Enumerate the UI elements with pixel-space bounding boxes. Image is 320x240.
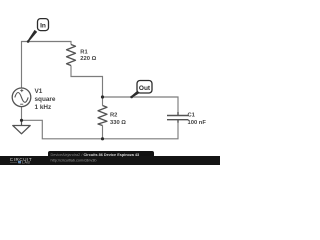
capacitor C1 xyxy=(167,112,189,123)
wire node A to R2 top xyxy=(102,97,104,106)
wire node A to C1 top xyxy=(103,97,179,112)
node junction dot bottom rail xyxy=(101,137,104,140)
flag In: tail xyxy=(28,30,38,42)
svg-text:DeviceAlejandra2 / Circuits 86: DeviceAlejandra2 / Circuits 86 Device Es… xyxy=(51,153,140,157)
svg-text:LAB: LAB xyxy=(22,161,30,165)
svg-text:220 Ω: 220 Ω xyxy=(80,56,96,62)
flag Out: tail xyxy=(131,91,140,98)
svg-text:C1: C1 xyxy=(188,113,196,119)
svg-text:1 kHz: 1 kHz xyxy=(35,104,52,111)
node A junction dot xyxy=(101,95,104,98)
footer bar xyxy=(0,156,220,165)
svg-text:square: square xyxy=(35,96,56,103)
svg-text:http://circuitlab.com/c8nv3b: http://circuitlab.com/c8nv3b xyxy=(51,158,97,162)
footer text plate xyxy=(48,151,154,165)
wire V1 bottom to ground node xyxy=(21,107,23,121)
ground xyxy=(13,120,30,134)
wire top-left loop: In corner to R1 top xyxy=(22,42,72,89)
voltage source V1 xyxy=(12,88,31,107)
wire R2 bottom to bottom rail xyxy=(102,126,104,139)
wire bottom return: ground node to R2/C1 bottom xyxy=(22,120,179,139)
svg-text:100 nF: 100 nF xyxy=(188,120,207,126)
svg-text:330 Ω: 330 Ω xyxy=(110,120,126,126)
flag In: box xyxy=(38,19,49,31)
resistor R1 xyxy=(67,45,76,66)
svg-text:R2: R2 xyxy=(110,113,117,119)
flag Out: box xyxy=(137,81,152,94)
svg-text:V1: V1 xyxy=(35,88,43,95)
footer logo blue square overlay xyxy=(18,161,21,164)
svg-text:R1: R1 xyxy=(80,50,88,56)
svg-text:Out: Out xyxy=(139,85,151,92)
svg-text:In: In xyxy=(40,23,46,30)
footer logo LAB row xyxy=(10,161,30,165)
node junction dot at ground xyxy=(20,119,23,122)
wire R1 bottom to node A xyxy=(71,66,103,98)
resistor R2 xyxy=(98,106,107,126)
